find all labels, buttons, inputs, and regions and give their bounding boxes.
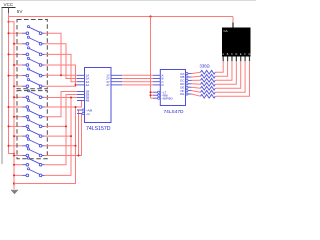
svg-text:4Y: 4Y <box>106 83 110 87</box>
switch S13 <box>14 155 22 157</box>
svg-text:CA: CA <box>224 29 228 33</box>
switch S2 <box>14 43 22 45</box>
svg-text:C: C <box>231 53 233 56</box>
svg-text:G: G <box>249 53 251 56</box>
decoder U2 74LS47D <box>160 70 185 106</box>
wire ground rail riser <box>14 146 76 184</box>
svg-text:330Ω: 330Ω <box>200 63 210 68</box>
resistor R5 330Ω <box>192 87 201 88</box>
switch S6 <box>14 85 22 87</box>
wire R6 to display segment pin F <box>215 62 245 92</box>
wire S9 to U1 1B <box>45 92 77 117</box>
node pole S13 <box>13 155 15 157</box>
switch S3 <box>9 53 23 55</box>
wire S4 to U1 4A <box>45 65 77 85</box>
wire S2 to U1 2A <box>45 44 77 79</box>
node pole S2 <box>13 43 15 45</box>
ground <box>11 189 18 191</box>
node VCC tap for U2 <box>149 15 151 17</box>
node ground corner <box>13 182 15 184</box>
wire R5 to display segment pin E <box>215 62 240 88</box>
resistor R2 330Ω <box>192 75 201 78</box>
multiplexer U1 74LS157D <box>85 68 112 123</box>
node pole S8 <box>8 106 10 108</box>
wire R2 to display segment pin B <box>215 62 227 76</box>
node pole S12 <box>8 145 10 147</box>
node rail junction <box>13 153 15 155</box>
node pole S15 <box>13 174 15 176</box>
node U2 ~LT tie <box>150 91 152 93</box>
wire R7 to display segment pin G <box>215 62 249 96</box>
node junction ground riser <box>75 145 77 147</box>
node pole S6 <box>13 85 15 87</box>
switch S10 <box>9 125 23 127</box>
node pole S7 <box>13 96 15 98</box>
switch S12 <box>9 145 23 147</box>
wire S7 to U1 3B <box>45 97 77 99</box>
node junction S5-1A <box>60 74 62 76</box>
wire S11 joins 3B riser <box>45 98 71 137</box>
sheet left border <box>1 7 3 164</box>
svg-text:OG: OG <box>180 92 185 96</box>
svg-text:74LS47D: 74LS47D <box>164 109 185 115</box>
svg-text:4A: 4A <box>86 83 90 87</box>
switch S14 <box>14 164 22 166</box>
wire S5 joins 1A net <box>45 74 61 76</box>
wire S12 joins S8 net <box>45 107 76 146</box>
node pole S1 <box>8 32 10 34</box>
wire to ground <box>13 184 15 190</box>
wire S13 to U1 ~A/B and ~G <box>45 114 82 156</box>
svg-text:VCC: VCC <box>4 2 14 7</box>
wire R4 to display segment pin D <box>215 62 236 84</box>
svg-text:D: D <box>235 53 237 56</box>
node pole S5 <box>8 75 10 77</box>
node U2 ~RBI tie <box>150 94 152 96</box>
switch S9 <box>14 116 22 118</box>
resistor R6 330Ω <box>192 91 201 93</box>
node junction S11-3B <box>70 97 72 99</box>
wire S14 joins S11 riser <box>45 126 66 164</box>
wire second rail to ground net <box>8 21 10 23</box>
switch S15 <box>14 174 22 176</box>
svg-text:~BI/RBO: ~BI/RBO <box>162 96 174 100</box>
node pole S3 <box>8 53 10 55</box>
switch S5 <box>9 75 23 77</box>
switch S7 <box>14 96 22 98</box>
sheet top edge <box>0 0 256 2</box>
node pole S4 <box>13 64 15 66</box>
switch S11 <box>14 135 22 137</box>
wire VCC drop to U2 control pins <box>150 17 152 99</box>
svg-text:5V: 5V <box>17 9 24 14</box>
wire S6 joins 4A net <box>45 85 76 86</box>
node pole S14 <box>13 164 15 166</box>
wire R3 to display segment pin C <box>215 62 232 80</box>
wire S15 joins S11 vertical <box>45 136 71 175</box>
wire S10 to U1 2B <box>45 95 77 127</box>
node junction S13 select <box>78 155 80 157</box>
resistor R4 330Ω <box>192 83 201 85</box>
wire S3 to U1 3A <box>45 54 77 81</box>
node junction S6-4A <box>75 84 77 86</box>
svg-text:~G: ~G <box>86 112 91 116</box>
switch S8 <box>9 106 23 108</box>
seven segment display U3 <box>222 28 251 57</box>
wire U1 3Y to C of U2 <box>122 81 153 83</box>
node junction S15 <box>70 135 72 137</box>
node junction S12-S8 <box>75 106 77 108</box>
wire U1 2Y to B of U2 <box>122 78 153 80</box>
wire R1 to display segment pin A <box>215 62 223 72</box>
switch S4 <box>14 64 22 66</box>
resistor R7 330Ω <box>192 94 201 96</box>
resistor R1 330Ω <box>192 72 201 73</box>
node pole S9 <box>13 116 15 118</box>
wire VCC top rail to display anode <box>8 13 10 17</box>
node junction S14 <box>65 125 67 127</box>
svg-text:4B: 4B <box>86 99 90 103</box>
wire U1 4Y to D of U2 <box>122 84 153 86</box>
switch S1 <box>9 32 23 34</box>
wire S8 to U1 4B <box>45 101 82 108</box>
switch bank box SW2 (dashed) <box>17 91 47 159</box>
wire VCC left rail <box>8 17 10 155</box>
wire S1 to U1 1A <box>45 33 77 75</box>
switch bank box SW1 (dashed) <box>17 20 47 89</box>
wire U1 1Y to A of U2 <box>122 74 153 76</box>
node pole S11 <box>13 135 15 137</box>
node pole S10 <box>8 125 10 127</box>
svg-text:74LS157D: 74LS157D <box>86 126 111 132</box>
resistor R3 330Ω <box>192 79 201 81</box>
